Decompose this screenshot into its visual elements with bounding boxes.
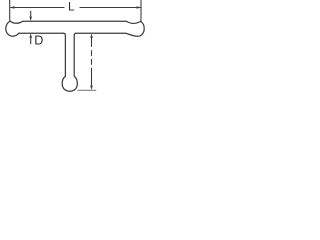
svg-text:D: D <box>34 34 43 48</box>
svg-text:L: L <box>68 0 75 13</box>
